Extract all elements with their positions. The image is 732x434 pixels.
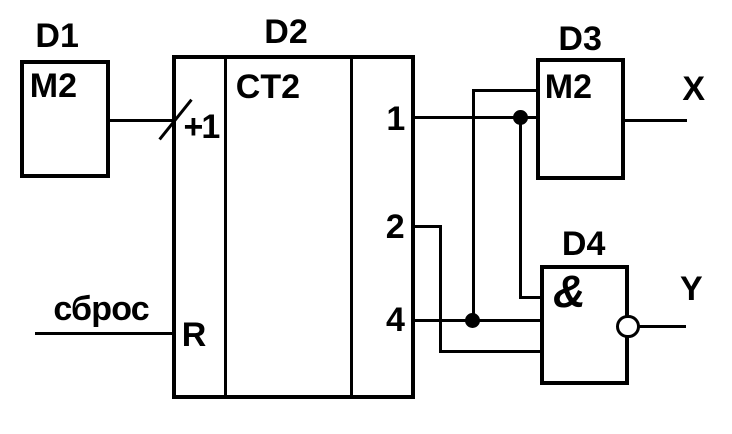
label D1 <box>35 19 78 53</box>
wire horizontal to D3 upper input <box>472 89 538 92</box>
wire output 1 to D3 input <box>413 116 538 119</box>
wire output 2 to D4 lower input <box>439 350 541 353</box>
pin label 2 <box>386 210 405 244</box>
divider right column of D2 <box>350 59 353 395</box>
divider left column of D2 <box>224 59 227 395</box>
wire D3 output to X <box>623 119 687 122</box>
wire D4 bubble to Y <box>639 325 686 328</box>
inversion bubble of D4 output <box>616 315 640 339</box>
label Y <box>680 272 703 306</box>
junction dot on output 1 wire <box>513 110 528 125</box>
block D3 <box>536 58 625 180</box>
pin label R <box>182 318 207 352</box>
wire vertical from junction 2 up <box>472 89 475 320</box>
label сброс <box>53 292 148 326</box>
pin label +1 <box>184 110 219 144</box>
label ampersand of D4 <box>553 269 586 314</box>
wire output 4 to D4 middle input <box>413 319 542 322</box>
wire horizontal to D4 upper input <box>519 296 542 299</box>
label X <box>682 72 705 106</box>
wire сброс to R input <box>35 332 176 335</box>
block D4 and-gate <box>540 265 630 385</box>
pin label 4 <box>386 303 405 337</box>
block D1 <box>20 60 110 178</box>
wire output 2 horizontal <box>413 225 442 228</box>
pin label 1 <box>386 102 405 136</box>
label D2 <box>264 15 307 49</box>
label CT2 <box>236 70 300 104</box>
wire output 2 vertical <box>439 225 442 354</box>
label D4 <box>562 227 605 261</box>
block D2 counter <box>172 55 415 399</box>
wire D1 to D2 +1 input <box>106 119 177 122</box>
wire vertical from junction 1 down <box>519 118 522 299</box>
label D3 <box>558 22 601 56</box>
label M2 of D3 <box>545 70 592 104</box>
slash bus mark on +1 wire <box>159 98 193 140</box>
junction dot on output 4 wire <box>465 313 480 328</box>
label M2 of D1 <box>30 69 77 103</box>
